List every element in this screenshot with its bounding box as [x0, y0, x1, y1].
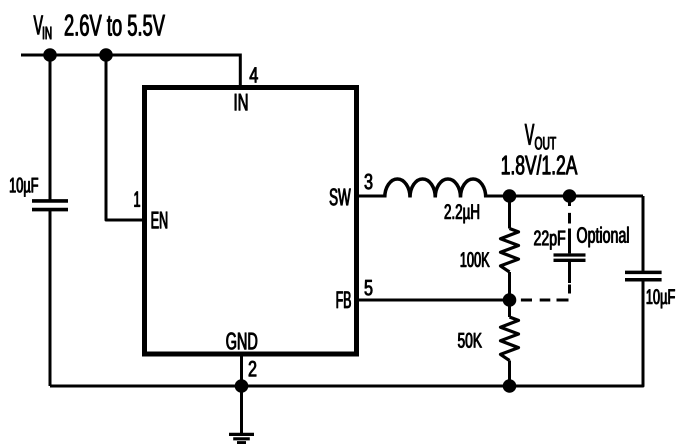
wire dashed optional cap top	[568, 201, 571, 224]
wire EN lead from VIN junction to pin 1	[106, 55, 147, 220]
resistor R1 100K	[501, 229, 519, 273]
label R2 value 50K	[458, 333, 482, 348]
pin GND label	[226, 333, 257, 350]
ground symbol	[229, 434, 254, 442]
wire ground stem	[240, 386, 243, 433]
resistor R2 50K	[501, 317, 519, 361]
label R1 value 100K	[461, 252, 490, 267]
wire input cap top lead	[49, 55, 52, 200]
wire bottom rail	[50, 385, 510, 388]
wire 50K top lead	[508, 300, 511, 317]
pin FB label	[337, 291, 351, 308]
node FB junction	[503, 293, 517, 307]
wire dashed optional cap bottom to FB	[521, 285, 570, 301]
wire output cap bottom lead to rail corner	[510, 281, 644, 386]
wire pin4 lead from rail down to IC IN	[239, 55, 242, 88]
pin IN label	[235, 94, 247, 111]
wire 50K bottom lead to bottom rail	[508, 361, 511, 387]
op-amp U1 IC body	[145, 88, 357, 355]
wire optional cap top lead	[568, 229, 571, 254]
pin 3 number	[365, 174, 373, 190]
wire 100K top lead	[508, 196, 511, 229]
pin 4 number	[250, 67, 258, 82]
capacitor C3 10uF plates	[625, 272, 662, 279]
node optional-cap junction	[563, 189, 577, 203]
wire output cap top lead	[642, 196, 645, 271]
node VIN junction B	[99, 48, 113, 62]
label C2 value 22pF	[534, 231, 565, 250]
pin 1 number	[134, 192, 139, 207]
pin SW label	[330, 188, 351, 205]
label C3 value 10uF	[647, 289, 675, 308]
pin EN label	[152, 212, 167, 229]
label L1 value 2.2uH	[445, 204, 479, 223]
node GND rail junction	[235, 379, 249, 393]
wire GND pin lead	[240, 354, 243, 386]
pin 2 number	[249, 361, 256, 376]
node 50K bottom rail junction	[503, 379, 517, 393]
pin 5 number	[365, 280, 373, 295]
label net VOUT	[502, 124, 577, 175]
wire VIN top rail	[21, 54, 240, 57]
node SW/VOUT junction	[503, 189, 517, 203]
wire 100K bottom lead to FB node	[508, 272, 511, 300]
node VIN junction A	[43, 48, 57, 62]
wire input cap bottom lead to bottom rail	[49, 211, 52, 386]
capacitor C1 10uF plates	[32, 201, 68, 210]
wire FB pin to divider node	[357, 299, 510, 302]
label C1 value 10uF	[10, 178, 38, 197]
wire SW pin to inductor	[357, 195, 386, 198]
label Optional	[577, 227, 628, 248]
label net VIN	[34, 15, 165, 40]
wire optional cap bottom lead	[568, 262, 571, 283]
wire inductor to output corner	[486, 195, 643, 198]
inductor L1	[385, 179, 486, 198]
capacitor C2 22pF plates	[554, 255, 586, 260]
